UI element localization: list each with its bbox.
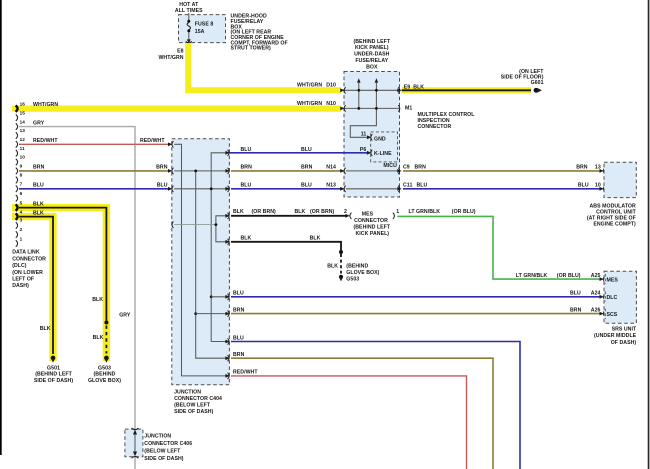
svg-text:BRN: BRN [570, 307, 582, 313]
wire BLU C11 to ABS [403, 188, 601, 190]
svg-text:A24: A24 [591, 291, 601, 297]
svg-text:A26: A26 [591, 307, 601, 313]
ground G601 [534, 88, 542, 93]
svg-text:SIDE OF DASH): SIDE OF DASH) [144, 456, 183, 462]
label BLU BLU N13 [241, 183, 337, 189]
bus vertical 1 with up arrow [357, 78, 361, 108]
label BLK BLK (ground wire) [241, 236, 321, 242]
C404 pin out BLU (K-line) connector [225, 150, 229, 156]
pin A24 connector [600, 294, 605, 300]
bus row N10-M1 [344, 107, 400, 109]
C404 junction dot BLU [210, 187, 213, 190]
svg-text:(OR BLU): (OR BLU) [557, 273, 581, 279]
C404 pin out RED/WHT connector [225, 373, 229, 379]
C404 pin out BLU connector [225, 186, 229, 192]
svg-text:WHT/GRN: WHT/GRN [33, 102, 58, 108]
svg-text:G501: G501 [47, 365, 60, 371]
pin N10 connector [340, 105, 345, 111]
C404 internal RED/WHT bus [174, 144, 227, 376]
C404 pin in BRN connector [168, 168, 173, 174]
SRS unit box [604, 271, 636, 323]
svg-text:(BELOW LEFT: (BELOW LEFT [144, 449, 181, 455]
label (BEHIND GLOVE BOX) G503 [346, 263, 379, 282]
label WHT/GRN N10 [297, 101, 336, 107]
label under-hood box description [231, 14, 288, 52]
svg-text:HOT AT: HOT AT [179, 2, 199, 8]
svg-text:BOX: BOX [366, 64, 378, 70]
svg-text:A25: A25 [591, 273, 601, 279]
wire RED/WHT pin12 to C404 [19, 143, 170, 145]
svg-text:(BEHIND: (BEHIND [94, 372, 116, 378]
svg-text:JUNCTION: JUNCTION [174, 389, 201, 395]
pin 11 GND connector [367, 134, 372, 140]
svg-text:M1: M1 [405, 106, 412, 112]
wire WHT/GRN DLC pin16 to N10 (yellow highlighted) [12, 105, 341, 111]
svg-text:RED/WHT: RED/WHT [233, 370, 258, 376]
page right border [648, 0, 650, 469]
DLC pin 12 arc [16, 141, 18, 148]
ground G501 [51, 356, 56, 363]
svg-text:CONNECTOR C404: CONNECTOR C404 [174, 396, 222, 402]
svg-text:WHT/GRN: WHT/GRN [297, 83, 322, 89]
label JUNCTION CONNECTOR C404 (BELOW LEFT SIDE OF DASH) [174, 389, 222, 415]
label BRN 13 [576, 165, 601, 171]
svg-text:BRN: BRN [415, 165, 427, 171]
MES pin 1 connector [393, 213, 395, 219]
under-hood fuse/relay box [179, 15, 226, 43]
C406 pass-through wire with arrows [132, 428, 139, 458]
svg-text:BLU: BLU [233, 335, 244, 341]
wire WHT/GRN fuse E8 to D10 (yellow highlighted) [188, 43, 341, 90]
DLC pin 13 arc [16, 132, 18, 139]
wire E9 BLK to G601 (yellow highlighted) [402, 87, 531, 93]
svg-text:(BEHIND: (BEHIND [346, 263, 368, 269]
svg-text:BLU: BLU [33, 183, 44, 189]
svg-text:LEFT OF: LEFT OF [12, 277, 34, 283]
svg-text:12: 12 [20, 137, 26, 142]
C404 internal BLU branch vertical [211, 153, 227, 342]
svg-text:E8: E8 [177, 49, 184, 55]
svg-text:UNDER-DASH: UNDER-DASH [354, 52, 390, 58]
svg-text:BLK: BLK [33, 210, 44, 216]
svg-text:(OR BRN): (OR BRN) [310, 209, 335, 215]
svg-text:GLOVE BOX): GLOVE BOX) [346, 270, 379, 276]
svg-text:BLU: BLU [301, 183, 312, 189]
svg-text:BLK: BLK [92, 297, 103, 303]
pin A26 connector [600, 310, 605, 316]
DLC pin 7 arc [16, 186, 18, 193]
label BLU A24 [570, 291, 601, 297]
svg-text:9: 9 [20, 164, 23, 169]
wire BLU pin7 to C404 [19, 188, 170, 190]
svg-text:BLK: BLK [40, 326, 51, 332]
pin D10 connector [340, 87, 345, 93]
SRS pin sub-box ticks [604, 274, 606, 319]
svg-text:C11: C11 [403, 183, 412, 189]
wire GRY pin14 to C406 [19, 127, 135, 469]
DLC pin 11 arc [16, 150, 18, 157]
svg-text:JUNCTION: JUNCTION [144, 433, 171, 439]
pin P6 K-LINE connector [367, 150, 372, 156]
wire BRN pin9 to C404 [19, 170, 170, 172]
ABS modulator control unit box [604, 162, 636, 197]
svg-text:BLK: BLK [327, 263, 338, 269]
label ABS MODULATOR CONTROL UNIT (AT RIGHT SIDE OF ENGINE COMPT) [587, 204, 637, 228]
label LT GRN/BLK (OR BLU) A25 [516, 273, 601, 279]
svg-text:DLC: DLC [607, 295, 618, 301]
wire BLK pin5 to G503 (yellow highlighted) [19, 208, 106, 354]
svg-text:N10: N10 [326, 101, 336, 107]
svg-text:N14: N14 [326, 165, 336, 171]
svg-text:BLK: BLK [33, 201, 44, 207]
junction dot on G503 ground wire [339, 250, 343, 254]
svg-text:(ON LOWER: (ON LOWER [12, 270, 43, 276]
C404 internal BLU row [174, 188, 227, 190]
fuse exit arrow at box edge [186, 39, 192, 43]
svg-text:15: 15 [20, 110, 26, 115]
wire BRN C404 to SRS A26 [231, 313, 601, 315]
svg-text:1: 1 [396, 209, 399, 215]
junction dot on pin5 ground wire [104, 321, 108, 325]
pin A25 connector [600, 276, 605, 282]
wire RED/WHT C404 to bottom [231, 376, 467, 469]
DLC pin 14 arc [16, 123, 18, 130]
svg-text:13: 13 [20, 128, 26, 133]
DLC pin 4 arc (bold) [16, 213, 18, 219]
pin C9 connector [397, 168, 401, 174]
wire BLK C404 to G503 (behind glove box) [231, 242, 341, 274]
svg-text:14: 14 [20, 119, 26, 124]
svg-text:BLK: BLK [295, 209, 306, 215]
DLC pin 15 arc [16, 114, 18, 121]
label MES CONNECTOR (BEHIND LEFT KICK PANEL) [353, 212, 390, 238]
svg-text:SCS: SCS [607, 312, 618, 318]
svg-text:(BEHIND LEFT: (BEHIND LEFT [353, 225, 390, 231]
C404 pin in BLU connector [168, 186, 173, 192]
DLC pin 9 arc [16, 168, 18, 175]
svg-text:GLOVE BOX): GLOVE BOX) [88, 378, 121, 384]
svg-text:CONNECTOR: CONNECTOR [354, 218, 388, 224]
svg-text:BRN: BRN [33, 165, 45, 171]
svg-text:RED/WHT: RED/WHT [140, 138, 165, 144]
svg-text:OF DASH): OF DASH) [611, 340, 637, 346]
C404 junction dot BLU lower [210, 295, 213, 298]
svg-text:10: 10 [20, 155, 26, 160]
wire BRN C9 to ABS [403, 170, 601, 172]
svg-text:BRN: BRN [233, 352, 245, 358]
svg-text:BLK: BLK [93, 335, 104, 341]
bus row D10-E9 [344, 89, 400, 91]
label G503 (BEHIND GLOVE BOX) [88, 365, 121, 384]
C404 internal BRN row [174, 170, 227, 172]
pin M1 connector [398, 105, 400, 111]
ground G503 (behind glove box, second) [339, 275, 343, 282]
label BLU 10 [578, 183, 601, 189]
C404 pin out BLK connector [225, 239, 229, 245]
pin C11 connector [397, 186, 401, 192]
label BLU BLU (K-line wire) [241, 147, 313, 153]
svg-text:BLU: BLU [417, 183, 428, 189]
DLC pin 1 arc [16, 240, 18, 247]
C404 internal BLU lower branch [211, 296, 227, 298]
junction dots rows x verticals [357, 89, 377, 110]
MICU sub-box [371, 132, 398, 162]
svg-text:4: 4 [20, 209, 23, 214]
DLC pin 8 arc [16, 177, 18, 184]
pin E9 connector [397, 87, 401, 93]
pin N14 connector [340, 168, 345, 174]
svg-text:(BEHIND LEFT: (BEHIND LEFT [353, 39, 390, 45]
svg-text:BLK: BLK [233, 209, 244, 215]
label E9 BLK [404, 84, 425, 90]
svg-text:(UNDER MIDDLE: (UNDER MIDDLE [594, 333, 637, 339]
wire BLU to K-LINE [230, 152, 367, 154]
label (ON LEFT SIDE OF FLOOR) G601 [501, 69, 545, 86]
svg-text:11: 11 [20, 146, 25, 151]
svg-text:5: 5 [20, 200, 23, 205]
label G501 (BEHIND LEFT SIDE OF DASH) [34, 365, 73, 384]
svg-text:CONNECTOR: CONNECTOR [418, 124, 452, 130]
wire BLK (OR BRN) C404 to MES pin 2 [231, 215, 347, 217]
svg-text:RED/WHT: RED/WHT [33, 138, 58, 144]
label 1 LT GRN/BLK (OR BLU) [396, 209, 475, 215]
pin 10 ABS connector [600, 186, 605, 192]
svg-text:BLU: BLU [157, 183, 168, 189]
svg-text:FUSE/RELAY: FUSE/RELAY [355, 58, 388, 64]
bus row N14-C9 [346, 170, 400, 172]
svg-text:C9: C9 [403, 165, 410, 171]
svg-text:G503: G503 [346, 277, 359, 283]
svg-text:P6: P6 [360, 147, 367, 153]
svg-text:BLU: BLU [241, 183, 252, 189]
MES pin 2 connector [345, 213, 351, 219]
label WHT/GRN D10 [297, 83, 336, 89]
bus vertical 2 with up arrow, jog to GND pin 11 [350, 78, 378, 137]
C404 pin out BLU (lower) connector [225, 338, 229, 344]
svg-text:(BEHIND LEFT: (BEHIND LEFT [35, 372, 72, 378]
svg-text:BLK: BLK [413, 84, 424, 90]
C404 junction dot BRN lower [194, 312, 197, 315]
svg-text:DATA LINK: DATA LINK [12, 250, 40, 256]
svg-text:GND: GND [374, 136, 386, 142]
fuse F8 symbol [187, 20, 190, 40]
svg-text:MICU: MICU [383, 163, 397, 169]
svg-text:BRN: BRN [241, 165, 253, 171]
label DATA LINK CONNECTOR (DLC) (ON LOWER LEFT OF DASH) [12, 250, 46, 290]
DLC pin 3 arc [16, 222, 18, 229]
svg-text:BLU: BLU [301, 147, 312, 153]
C404 junction dot BRN [194, 170, 197, 173]
svg-text:BRN: BRN [156, 165, 168, 171]
DLC pin 6 arc [16, 195, 18, 202]
svg-text:D10: D10 [326, 83, 336, 89]
label C9 BRN [403, 165, 426, 171]
wire highlight BLK pin5 ground (yellow band) [12, 208, 106, 361]
svg-text:MES: MES [607, 277, 619, 283]
svg-text:SIDE OF DASH): SIDE OF DASH) [174, 409, 213, 415]
svg-text:BLK: BLK [310, 236, 321, 242]
junction connector C406 box [125, 429, 143, 457]
svg-text:SRS UNIT: SRS UNIT [612, 327, 637, 333]
svg-text:11: 11 [361, 132, 367, 138]
svg-text:FUSE 8: FUSE 8 [195, 22, 214, 28]
svg-text:ENGINE COMPT): ENGINE COMPT) [593, 222, 636, 228]
label JUNCTION CONNECTOR C406 (BELOW LEFT SIDE OF DASH) [144, 433, 192, 461]
svg-text:BRN: BRN [576, 165, 588, 171]
junction connector C404 box [172, 139, 230, 385]
svg-text:(OR BLU): (OR BLU) [452, 209, 476, 215]
wire BLK pin4 to G501 (yellow highlighted) [19, 217, 53, 354]
wire BRN C404 to N14 [231, 170, 343, 172]
C404 internal BRN branch vertical [196, 171, 228, 358]
svg-text:WHT/GRN: WHT/GRN [158, 55, 183, 61]
C404 internal BLK bus [174, 216, 227, 242]
svg-text:BLU: BLU [233, 291, 244, 297]
svg-text:G601: G601 [531, 80, 544, 86]
label C11 BLU [403, 183, 428, 189]
wire BRN C404 lower to bottom [231, 358, 493, 469]
svg-text:DASH): DASH) [12, 283, 29, 289]
label BLK (OR BRN) BLK (OR BRN) 2 [233, 209, 347, 215]
C404 pin out BLU (to SRS) connector [225, 294, 229, 300]
svg-text:BRN: BRN [233, 307, 245, 313]
wire LT GRN/BLK MES pin1 to SRS A25 [397, 216, 601, 279]
svg-text:1: 1 [20, 237, 23, 242]
ground G503 (behind glove box) [104, 356, 109, 363]
C404 pin out BRN connector [225, 168, 229, 174]
svg-text:6: 6 [20, 191, 23, 196]
label MULTIPLEX CONTROL INSPECTION CONNECTOR [418, 112, 476, 130]
label FUSE 8 15A [195, 22, 214, 35]
C404 internal BRN lower branch [196, 313, 228, 315]
svg-text:MES: MES [362, 212, 374, 218]
svg-text:SIDE OF DASH): SIDE OF DASH) [34, 378, 73, 384]
svg-text:KICK PANEL): KICK PANEL) [355, 45, 389, 51]
svg-text:GRY: GRY [119, 313, 131, 319]
svg-text:LT GRN/BLK: LT GRN/BLK [409, 209, 441, 215]
bus row N13-C11 [346, 188, 400, 190]
svg-text:(BELOW LEFT: (BELOW LEFT [174, 403, 211, 409]
svg-text:GRY: GRY [33, 120, 45, 126]
svg-text:(DLC): (DLC) [12, 263, 27, 269]
svg-text:(OR BRN): (OR BRN) [252, 209, 277, 215]
svg-text:G503: G503 [98, 365, 111, 371]
C404 pin out BLK (OR BRN) connector [225, 213, 229, 219]
label SRS UNIT (UNDER MIDDLE OF DASH) [594, 327, 637, 346]
DLC pin 2 arc [16, 231, 18, 238]
pin 13 ABS connector [600, 168, 605, 174]
svg-text:7: 7 [20, 182, 23, 187]
svg-text:K-LINE: K-LINE [374, 151, 392, 157]
DLC pin 10 arc [16, 159, 18, 166]
svg-text:2: 2 [20, 227, 23, 232]
svg-text:BLU: BLU [578, 183, 589, 189]
wire BLU C404 to SRS A24 [231, 296, 601, 298]
svg-text:8: 8 [20, 173, 23, 178]
DLC pin 5 arc (bold) [16, 204, 18, 210]
label (BEHIND LEFT KICK PANEL) UNDER-DASH FUSE/RELAY BOX [353, 39, 390, 71]
C404 junction dot BLK [215, 223, 218, 226]
wire stub into fuse box [188, 13, 190, 20]
C404 pin out BRN (lower) connector [225, 355, 229, 361]
pin N13 connector [340, 186, 345, 192]
svg-text:BLU: BLU [241, 147, 252, 153]
C404 pin in RED/WHT connector [168, 141, 173, 147]
wire BLU C404 lower to bottom [231, 342, 520, 469]
svg-text:BRN: BRN [301, 165, 313, 171]
svg-text:15A: 15A [195, 29, 205, 35]
svg-text:CONNECTOR: CONNECTOR [12, 256, 46, 262]
svg-text:16: 16 [20, 101, 26, 106]
label BRN BRN N14 [241, 165, 337, 171]
svg-text:WHT/GRN: WHT/GRN [297, 101, 322, 107]
svg-text:STRUT TOWER): STRUT TOWER) [231, 46, 271, 52]
label BRN A26 [570, 307, 601, 313]
svg-text:BLK: BLK [241, 236, 252, 242]
svg-text:KICK PANEL): KICK PANEL) [355, 231, 389, 237]
DLC pin 16 arc (bold) [16, 105, 18, 111]
svg-text:LT GRN/BLK: LT GRN/BLK [516, 273, 548, 279]
svg-text:3: 3 [20, 218, 23, 223]
under-dash fuse/relay box [344, 72, 400, 198]
page left border [0, 0, 2, 455]
wire BLU C404 to N13 [231, 188, 343, 190]
wire highlight BLK pin4 ground (yellow band) [12, 217, 53, 361]
svg-text:CONNECTOR C406: CONNECTOR C406 [144, 441, 192, 447]
svg-text:E9: E9 [404, 84, 411, 90]
C404 pin out BRN (to SRS) connector [225, 310, 229, 316]
svg-text:N13: N13 [326, 183, 336, 189]
C404 unused pin connector [172, 221, 174, 227]
svg-text:BLU: BLU [570, 291, 581, 297]
